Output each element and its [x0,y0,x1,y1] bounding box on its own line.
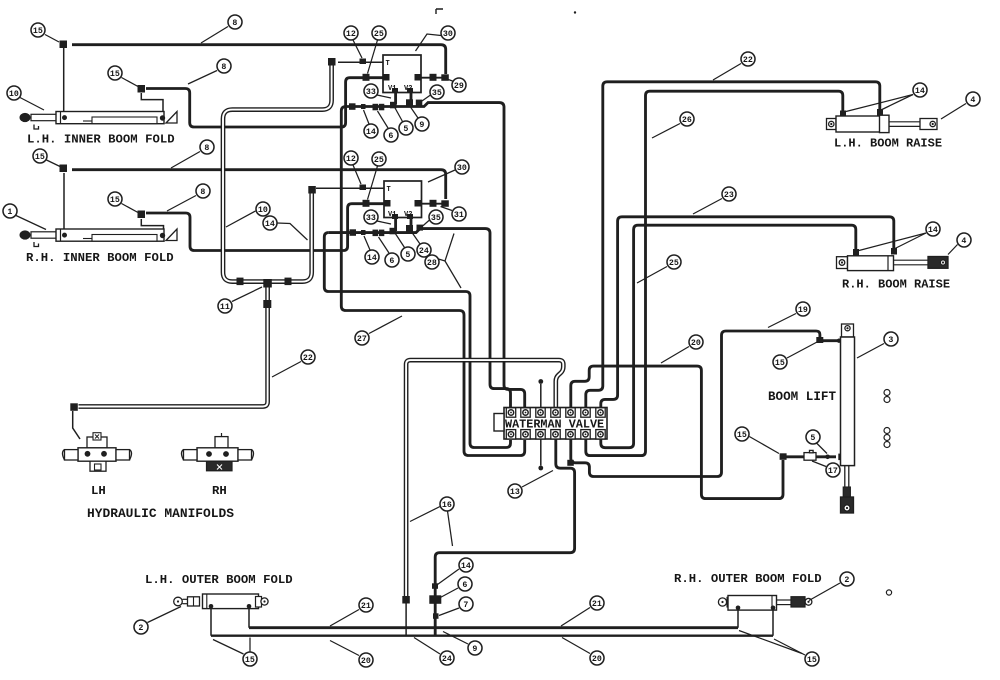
svg-text:15: 15 [775,359,785,368]
svg-text:15: 15 [33,27,43,36]
svg-text:5: 5 [405,251,410,260]
svg-text:5: 5 [403,125,408,134]
svg-text:R.H. BOOM RAISE: R.H. BOOM RAISE [842,278,950,292]
svg-text:17: 17 [828,467,838,476]
svg-text:25: 25 [374,30,384,39]
svg-text:14: 14 [461,562,471,571]
svg-text:7: 7 [463,601,468,610]
svg-text:1: 1 [7,208,12,217]
svg-text:8: 8 [200,188,205,197]
svg-text:L.H. OUTER BOOM FOLD: L.H. OUTER BOOM FOLD [145,573,293,587]
svg-text:14: 14 [928,226,938,235]
svg-text:24: 24 [442,655,452,664]
svg-text:20: 20 [361,657,371,666]
svg-text:RH: RH [212,484,227,498]
svg-text:6: 6 [388,132,393,141]
svg-text:V2: V2 [404,85,412,93]
svg-text:2: 2 [844,576,849,585]
svg-text:35: 35 [432,89,442,98]
svg-text:16: 16 [442,501,452,510]
svg-text:26: 26 [682,116,692,125]
svg-text:15: 15 [807,656,817,665]
svg-text:4: 4 [961,237,966,246]
svg-text:14: 14 [265,220,275,229]
svg-text:30: 30 [457,164,467,173]
svg-text:30: 30 [443,30,453,39]
svg-text:T: T [387,186,391,194]
svg-text:V1: V1 [388,85,396,93]
svg-text:L.H. INNER BOOM FOLD: L.H. INNER BOOM FOLD [27,133,175,147]
svg-text:28: 28 [427,259,437,268]
svg-text:12: 12 [346,155,356,164]
svg-text:15: 15 [110,196,120,205]
svg-text:11: 11 [220,303,230,312]
svg-text:8: 8 [204,144,209,153]
svg-text:10: 10 [9,90,19,99]
svg-text:15: 15 [737,431,747,440]
svg-text:31: 31 [454,211,464,220]
svg-text:R.H. OUTER BOOM FOLD: R.H. OUTER BOOM FOLD [674,572,822,586]
svg-text:V2: V2 [404,211,412,219]
svg-text:BOOM LIFT: BOOM LIFT [768,390,836,404]
svg-text:25: 25 [374,156,384,165]
svg-text:25: 25 [669,259,679,268]
svg-text:L.H. BOOM RAISE: L.H. BOOM RAISE [834,137,942,151]
svg-text:14: 14 [915,87,925,96]
svg-text:15: 15 [35,153,45,162]
svg-text:V1: V1 [388,211,396,219]
svg-text:6: 6 [462,581,467,590]
svg-text:HYDRAULIC MANIFOLDS: HYDRAULIC MANIFOLDS [87,506,234,521]
svg-text:T: T [386,60,390,68]
svg-text:8: 8 [232,19,237,28]
svg-text:10: 10 [258,206,268,215]
svg-text:4: 4 [970,96,975,105]
svg-text:20: 20 [592,655,602,664]
svg-text:2: 2 [138,624,143,633]
svg-text:14: 14 [367,254,377,263]
svg-text:13: 13 [510,488,520,497]
svg-text:24: 24 [419,247,429,256]
svg-text:9: 9 [419,121,424,130]
svg-text:12: 12 [346,30,356,39]
svg-text:3: 3 [888,336,893,345]
svg-text:5: 5 [810,434,815,443]
svg-text:33: 33 [366,214,376,223]
svg-text:8: 8 [221,63,226,72]
svg-text:9: 9 [472,645,477,654]
svg-text:21: 21 [361,602,371,611]
svg-text:19: 19 [798,306,808,315]
svg-text:14: 14 [366,128,376,137]
svg-text:22: 22 [743,56,753,65]
svg-text:29: 29 [454,82,464,91]
svg-text:15: 15 [110,70,120,79]
svg-text:27: 27 [357,335,367,344]
svg-text:35: 35 [431,214,441,223]
svg-text:LH: LH [91,484,106,498]
svg-text:22: 22 [303,354,313,363]
svg-text:R.H. INNER BOOM FOLD: R.H. INNER BOOM FOLD [26,251,174,265]
svg-text:20: 20 [691,339,701,348]
svg-text:21: 21 [592,600,602,609]
svg-text:23: 23 [724,191,734,200]
svg-text:6: 6 [389,257,394,266]
svg-text:15: 15 [245,656,255,665]
svg-text:33: 33 [366,88,376,97]
